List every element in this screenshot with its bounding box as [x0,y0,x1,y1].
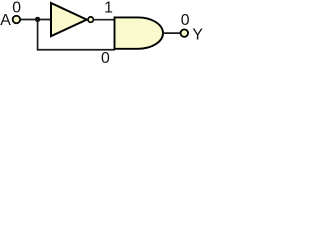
inverter U1 output bubble [88,17,93,22]
junction dot [35,17,40,22]
wire AND output to Y [163,32,181,34]
svg-text:A: A [0,12,11,29]
svg-text:0: 0 [12,0,21,17]
svg-text:Y: Y [192,27,203,44]
wire A to inverter [20,19,51,21]
terminal Y [181,29,189,37]
wire junction vertical drop [37,20,39,50]
svg-text:1: 1 [104,0,113,17]
svg-text:0: 0 [181,12,190,29]
wire bubble to AND gate [94,19,115,21]
inverter U1 triangle [51,3,87,36]
terminal A [13,16,21,24]
AND gate U2 [115,17,164,48]
svg-text:0: 0 [101,50,110,63]
wire bottom run to AND gate [37,49,115,51]
